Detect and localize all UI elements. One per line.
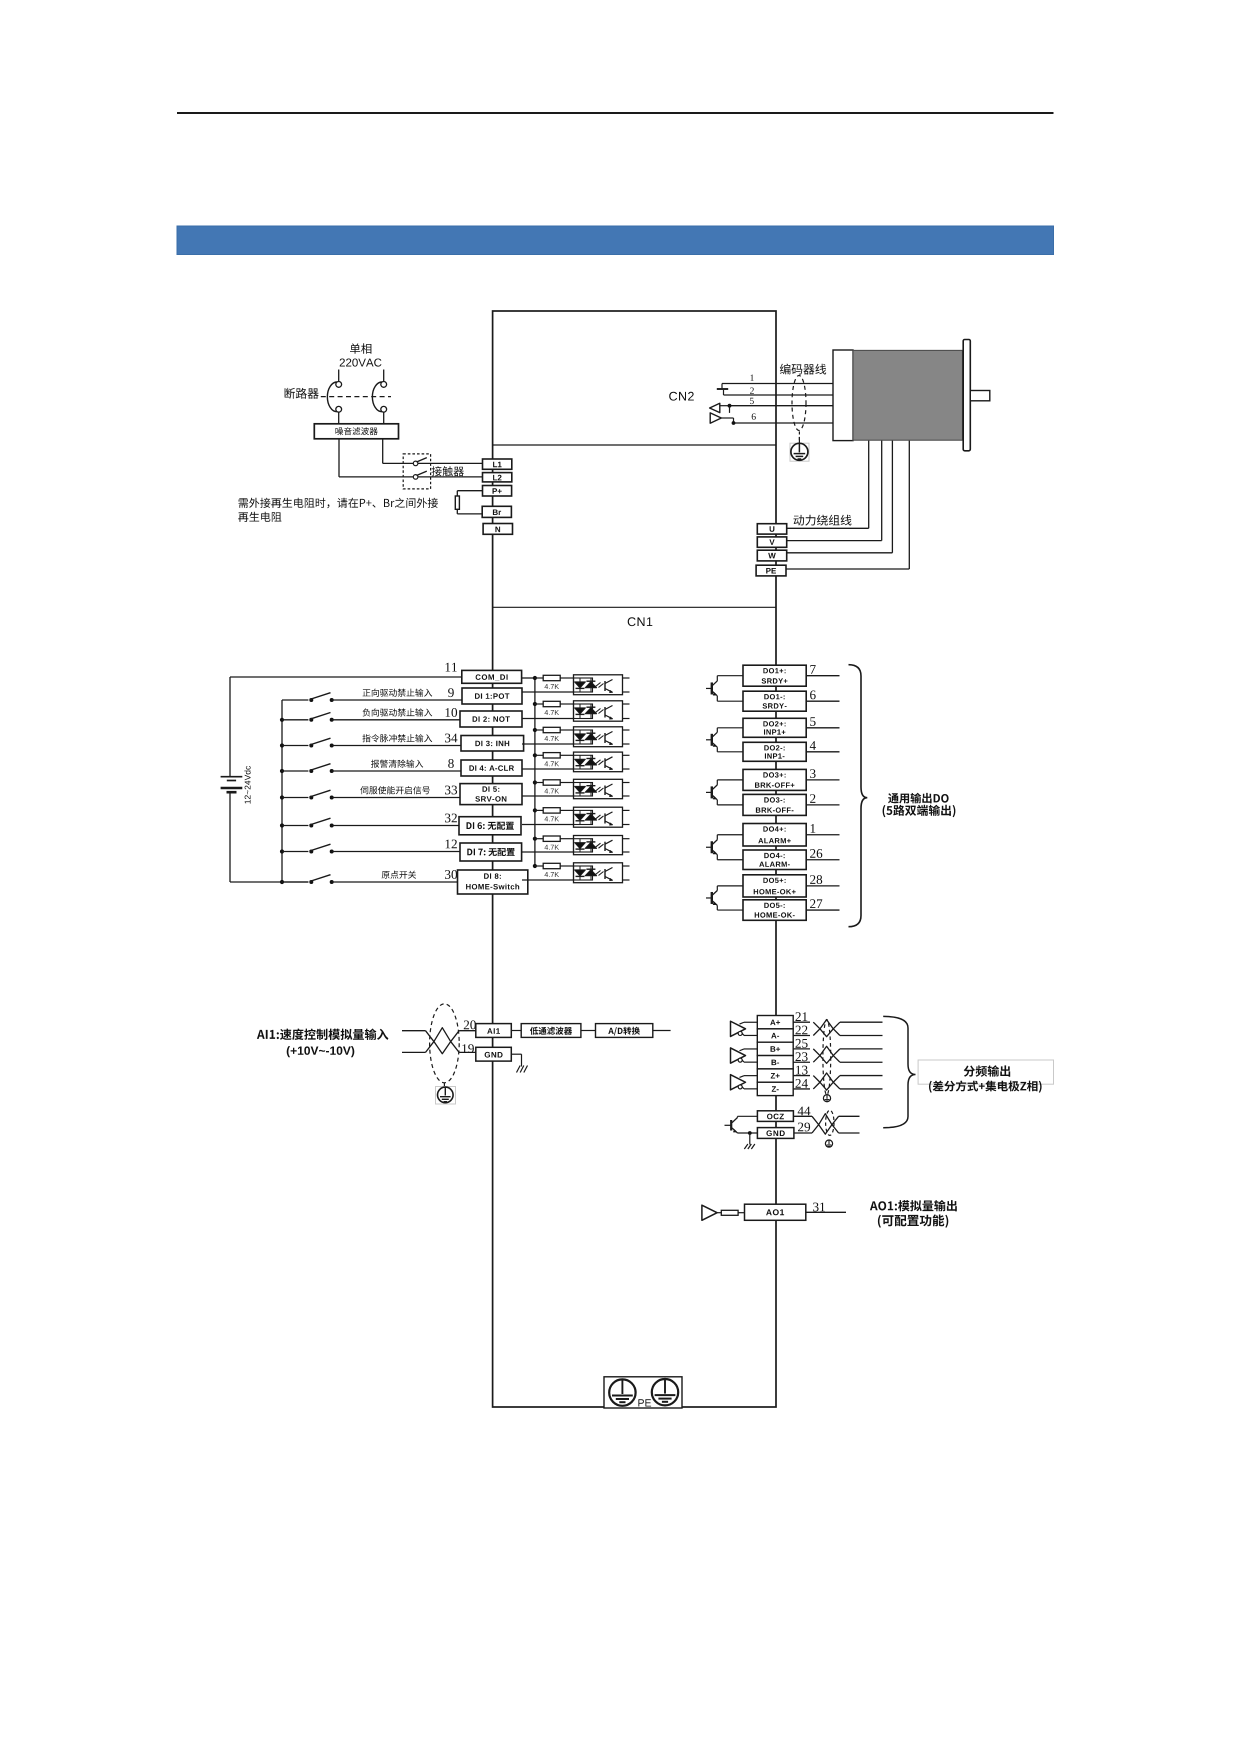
terminal Z- bbox=[757, 1082, 793, 1095]
pin 21 bbox=[796, 1012, 808, 1021]
junction bus row DI5 bbox=[280, 795, 284, 799]
earth symbol PE 1 bbox=[609, 1379, 635, 1405]
wire Z- after twist bbox=[840, 1088, 883, 1090]
optocoupler U8 bbox=[574, 863, 623, 883]
wire DO pin 7 bbox=[806, 675, 839, 677]
wire optocoupler U1 outputs bbox=[623, 677, 630, 679]
wire switch S3 to DI3 terminal bbox=[332, 745, 461, 747]
wire driver to pin6 bbox=[721, 417, 733, 419]
pin 25 bbox=[796, 1039, 808, 1048]
wire bus to resistor R4 bbox=[535, 754, 543, 756]
brace general DO outputs bbox=[849, 665, 868, 927]
wire B+ after twist bbox=[840, 1048, 883, 1050]
pin 11 bbox=[446, 663, 457, 672]
junction bus row DI2 bbox=[280, 718, 284, 722]
wire bus to resistor R7 bbox=[535, 838, 543, 840]
terminal DI2:NOT bbox=[460, 711, 522, 727]
wire pin 25 bbox=[793, 1048, 810, 1050]
terminal P+ bbox=[483, 486, 512, 497]
terminal AI1 bbox=[476, 1024, 512, 1038]
wire pin 13 bbox=[793, 1075, 810, 1077]
wire A/D converter output bbox=[653, 1030, 671, 1032]
wire bus to switch S5 bbox=[282, 797, 308, 799]
label contactor bbox=[432, 466, 464, 476]
wire AI1 input - bbox=[402, 1051, 426, 1053]
terminal V bbox=[757, 537, 786, 547]
pin 34 bbox=[445, 734, 457, 743]
junction bus row DI7 bbox=[280, 849, 284, 853]
wire pin 23 bbox=[793, 1061, 810, 1063]
resistor R2 4.7K bbox=[543, 701, 560, 706]
wire DO pin 4 bbox=[806, 751, 839, 753]
terminal A+ bbox=[757, 1016, 793, 1029]
wire optocoupler U6 outputs bbox=[623, 809, 630, 811]
wire Q2 collector to DO2+ bbox=[716, 728, 718, 733]
wire contact1 to L1 bbox=[418, 462, 483, 464]
A/D converter block bbox=[596, 1024, 653, 1038]
encoder wire pin 1 bbox=[722, 383, 833, 385]
terminal DO5+ HOME-OK+ bbox=[743, 875, 806, 897]
pin 26 bbox=[810, 849, 822, 858]
wire bus to resistor R3 bbox=[535, 729, 543, 731]
switch S6 bbox=[309, 824, 313, 828]
wire resistor R8 to optocoupler U8 bbox=[560, 865, 573, 867]
pin 27 bbox=[810, 899, 822, 908]
brace frequency-divided output bbox=[883, 1016, 915, 1127]
optocoupler U1 bbox=[574, 675, 623, 695]
battery 12~24Vdc bbox=[221, 776, 243, 778]
value label 4.7K bbox=[545, 761, 560, 766]
wire DI8 terminal to optocoupler U8 cathode bbox=[522, 879, 574, 881]
contactor KM contact 1 bbox=[413, 461, 418, 466]
resistor R1 4.7K bbox=[543, 675, 560, 680]
pin 10 bbox=[446, 708, 458, 717]
terminal N bbox=[483, 524, 512, 535]
shield earth symbol A/B/Z bbox=[823, 1095, 830, 1102]
pin 23 bbox=[796, 1052, 808, 1061]
pin 24 bbox=[796, 1079, 808, 1088]
noise filter box bbox=[314, 424, 398, 439]
value label 4.7K bbox=[545, 845, 560, 850]
wire GND after twist bbox=[839, 1132, 860, 1134]
PE terminal block bbox=[604, 1377, 682, 1408]
wire OCZ after twist bbox=[839, 1115, 860, 1117]
junction bus at resistor R8 bbox=[533, 864, 537, 868]
wire W phase bbox=[787, 552, 893, 554]
switch S5 bbox=[309, 796, 313, 800]
pin 33 bbox=[445, 786, 457, 795]
terminal W bbox=[757, 550, 786, 561]
wire resistor to AO1 terminal bbox=[738, 1212, 744, 1214]
series resistor AO1 bbox=[721, 1210, 738, 1215]
wire DI5 terminal to optocoupler U5 cathode bbox=[522, 795, 574, 797]
wire bus to switch S4 bbox=[282, 770, 308, 772]
servo motor body bbox=[853, 350, 963, 440]
wire AI1 to low-pass filter bbox=[511, 1030, 521, 1032]
wire resistor R6 to optocoupler U6 bbox=[560, 809, 573, 811]
value label 4.7K bbox=[545, 816, 560, 821]
buffer amplifier AO1 bbox=[702, 1205, 717, 1220]
wire optocoupler U5 outputs bbox=[623, 782, 630, 784]
wire DO pin 26 bbox=[806, 859, 839, 861]
pin 6 bbox=[810, 691, 816, 700]
pin 20 bbox=[464, 1020, 476, 1029]
transistor Q2 bbox=[706, 739, 711, 741]
terminal L1 bbox=[483, 459, 512, 469]
terminal COM_DI bbox=[462, 670, 522, 683]
encoder driver triangle bbox=[710, 413, 721, 423]
wire receiver to pin5 bbox=[720, 405, 730, 407]
wire DO pin 3 bbox=[806, 779, 839, 781]
resistor R3 4.7K bbox=[543, 727, 560, 732]
terminal DI1:POT bbox=[462, 688, 522, 704]
label DI1 function bbox=[363, 689, 433, 697]
wire bus to resistor R6 bbox=[535, 809, 543, 811]
wire AC N to breaker bbox=[383, 370, 385, 382]
pin 1 bbox=[811, 824, 816, 833]
wire supply positive rail bbox=[229, 677, 231, 776]
terminal B+ bbox=[757, 1042, 793, 1055]
terminal L2 bbox=[483, 473, 512, 482]
wire optocoupler U8 outputs bbox=[623, 865, 630, 867]
pin 4 bbox=[810, 741, 816, 750]
encoder wire pin 6 bbox=[734, 422, 834, 424]
optocoupler U3 bbox=[574, 727, 623, 747]
earth symbol PE 2 bbox=[652, 1379, 678, 1405]
wire DI3 terminal to optocoupler U3 cathode bbox=[522, 743, 574, 745]
optocoupler U6 bbox=[574, 807, 623, 827]
wire resistor R4 to optocoupler U4 bbox=[560, 754, 573, 756]
contactor KM dashed box bbox=[403, 454, 430, 489]
terminal Br bbox=[482, 506, 511, 517]
wire DO pin 27 bbox=[806, 909, 839, 911]
pin 3 bbox=[810, 769, 816, 778]
value label 4.7K bbox=[545, 736, 560, 741]
wires driver U11 to terminals bbox=[740, 1076, 745, 1078]
wire DI6 terminal to optocoupler U6 cathode bbox=[522, 824, 574, 826]
switch S2 bbox=[309, 718, 313, 722]
wire filter out left to contactor bottom contact bbox=[338, 439, 340, 477]
wire low-pass filter to A/D bbox=[581, 1030, 596, 1032]
wire contact2 to L2 bbox=[418, 476, 483, 478]
twisted pair OCZ/GND bbox=[812, 1116, 839, 1134]
circuit breaker QF pole 1 bbox=[336, 382, 342, 388]
label box frequency-divided output bbox=[918, 1060, 1053, 1084]
wire optocoupler U7 outputs bbox=[623, 838, 630, 840]
junction bus at resistor R2 bbox=[533, 702, 537, 706]
transistor Q4 bbox=[706, 846, 711, 848]
pin 31 bbox=[813, 1203, 825, 1212]
chassis ground symbol AI1 bbox=[517, 1066, 521, 1073]
junction bus at resistor R5 bbox=[533, 780, 537, 784]
wire resistor R5 to optocoupler U5 bbox=[560, 782, 573, 784]
label AO1 analog output bbox=[870, 1200, 957, 1211]
wire bus to switch S3 bbox=[282, 745, 308, 747]
wire optocoupler U4 outputs bbox=[623, 754, 630, 756]
wire AI1 input + bbox=[402, 1030, 426, 1032]
switch S1 bbox=[309, 698, 313, 702]
wire resistor R2 to optocoupler U2 bbox=[560, 703, 573, 705]
wire switch S1 to DI1 terminal bbox=[332, 699, 462, 701]
terminal DO3+ BRK-OFF+ bbox=[743, 769, 806, 790]
terminal DO1+ SRDY+ bbox=[743, 665, 806, 686]
transistor Q1 bbox=[706, 687, 711, 689]
differential driver U9 bbox=[731, 1021, 746, 1036]
wire shield to earth AI1 bbox=[443, 1083, 445, 1087]
servo motor shaft bbox=[970, 391, 990, 401]
wire DI7 terminal to optocoupler U7 cathode bbox=[522, 851, 574, 853]
wire pin 22 bbox=[793, 1035, 810, 1037]
cable shield ellipse OCZ bbox=[826, 1110, 834, 1135]
wire optocoupler U2 outputs bbox=[623, 703, 630, 705]
wire Q2 emitter to DO2- bbox=[716, 746, 717, 747]
transistor Q3 bbox=[706, 791, 711, 793]
wire V phase bbox=[787, 540, 882, 542]
wire twist to pin 19 bbox=[459, 1051, 476, 1053]
label CN1 bbox=[628, 617, 653, 626]
pin 28 bbox=[810, 875, 822, 884]
wire DO pin 6 bbox=[806, 700, 839, 702]
twisted pair AI1 bbox=[426, 1031, 460, 1054]
wire bus to switch S7 bbox=[282, 851, 308, 853]
divider line above CN1 section bbox=[493, 606, 776, 608]
wire switch S8 to DI8 terminal bbox=[332, 881, 458, 883]
wire twist to pin 20 bbox=[459, 1030, 476, 1032]
switch S8 bbox=[309, 880, 313, 884]
terminal DI5:SRV-ON bbox=[460, 784, 522, 805]
terminal B- bbox=[757, 1056, 793, 1069]
resistor R6 4.7K bbox=[543, 808, 560, 813]
DI common bus vertical bbox=[534, 678, 536, 866]
twisted pair B+/B- bbox=[813, 1049, 840, 1064]
wires driver U9 to terminals bbox=[740, 1022, 745, 1024]
wire switch S2 to DI2 terminal bbox=[332, 719, 460, 721]
value label 4.7K bbox=[545, 710, 560, 715]
wire A+ after twist bbox=[840, 1021, 883, 1023]
optocoupler U4 bbox=[574, 752, 623, 772]
wire shield to earth bbox=[798, 432, 800, 444]
wire breaker pole1 to noise filter bbox=[338, 412, 340, 424]
pin 1 bbox=[751, 375, 754, 381]
wire switch S4 to DI4 terminal bbox=[332, 770, 461, 772]
terminal GND (pulse) bbox=[757, 1128, 794, 1139]
pin 7 bbox=[810, 665, 815, 674]
terminal DO2- INP1- bbox=[743, 742, 806, 761]
wire Q6 emitter to GND bbox=[736, 1132, 737, 1133]
pin 8 bbox=[448, 759, 454, 768]
wire DI2 terminal to optocoupler U2 cathode bbox=[522, 718, 574, 720]
terminal DI8:HOME-Switch bbox=[458, 870, 528, 894]
pin 6 bbox=[752, 413, 756, 419]
wire bus to switch S2 bbox=[282, 719, 308, 721]
resistor R5 4.7K bbox=[543, 780, 560, 785]
wire bus to resistor R1 bbox=[535, 677, 543, 679]
junction bus at resistor R4 bbox=[533, 753, 537, 757]
terminal DI6 (unassigned) bbox=[459, 817, 521, 835]
encoder wire pin 2 bbox=[724, 394, 834, 396]
pin 2 bbox=[810, 794, 815, 803]
wire Q4 collector to DO4+ bbox=[716, 835, 718, 840]
optocoupler U2 bbox=[574, 701, 623, 721]
chassis ground symbol Q6 bbox=[744, 1144, 748, 1149]
wire DO pin 28 bbox=[806, 885, 839, 887]
external regen resistor RB bbox=[455, 496, 459, 509]
junction bus at resistor R1 bbox=[533, 676, 537, 680]
wire pin 24 bbox=[793, 1088, 810, 1090]
wire switch S5 to DI5 terminal bbox=[332, 797, 460, 799]
pin 22 bbox=[796, 1026, 808, 1035]
label AI1 analog input bbox=[257, 1029, 389, 1041]
value label 4.7K bbox=[545, 789, 560, 794]
wire amp to resistor bbox=[717, 1212, 721, 1214]
circuit breaker QF pole 2 bbox=[381, 382, 387, 388]
wire bus to switch S8 bbox=[282, 881, 308, 883]
wire bus to switch S6 bbox=[282, 825, 308, 827]
encoder wire pin 5 bbox=[730, 405, 834, 407]
wire U phase bbox=[787, 527, 869, 529]
encoder receiver triangle bbox=[710, 403, 720, 412]
terminal Z+ bbox=[757, 1069, 793, 1082]
terminal DI3:INH bbox=[461, 736, 524, 752]
wire AC L to breaker bbox=[338, 370, 340, 382]
switch common bus bbox=[281, 700, 283, 882]
value label 4.7K bbox=[545, 684, 560, 689]
wire switch S7 to DI7 terminal bbox=[332, 851, 460, 853]
wire A- after twist bbox=[840, 1035, 883, 1037]
wire filter out right to contactor top contact bbox=[382, 439, 384, 464]
optocoupler U7 bbox=[574, 836, 623, 855]
wire Q5 collector to DO5+ bbox=[716, 886, 718, 891]
cable shield ellipse A/B/Z bbox=[823, 1020, 831, 1095]
junction bus row DI4 bbox=[280, 769, 284, 773]
switch S3 bbox=[309, 744, 313, 748]
wire Q6 collector to OCZ bbox=[737, 1116, 739, 1117]
pin 44 bbox=[798, 1107, 811, 1116]
label general output DO bbox=[888, 793, 949, 804]
wire pin 29 bbox=[794, 1132, 812, 1134]
label DI8 function bbox=[382, 871, 417, 879]
terminal DO3- BRK-OFF- bbox=[743, 794, 806, 815]
label DI5 function bbox=[360, 786, 430, 794]
encoder cable shield ellipse bbox=[792, 376, 806, 431]
terminal GND (analog) bbox=[476, 1047, 512, 1061]
wire breaker pole2 to noise filter bbox=[383, 412, 385, 424]
wire GND to chassis ground bbox=[511, 1053, 521, 1055]
terminal DO4- ALARM- bbox=[743, 850, 806, 870]
label encoder cable bbox=[780, 364, 826, 375]
terminal DI7 (unassigned) bbox=[460, 843, 522, 861]
pin 19 bbox=[462, 1044, 474, 1053]
terminal AO1 bbox=[745, 1204, 806, 1220]
wire PE to motor bbox=[786, 568, 909, 570]
encoder shield earth (PE) symbol bbox=[790, 443, 809, 461]
servo drive enclosure bbox=[493, 311, 776, 1407]
terminal DO4+ ALARM+ bbox=[743, 824, 806, 847]
wire optocoupler U3 outputs bbox=[623, 729, 630, 731]
pin 5 bbox=[750, 398, 754, 404]
wire DO pin 5 bbox=[806, 727, 839, 729]
terminal OCZ bbox=[757, 1111, 793, 1122]
switch S7 bbox=[309, 850, 313, 854]
wire Z+ after twist bbox=[840, 1075, 883, 1077]
terminal DO1- SRDY- bbox=[743, 691, 806, 711]
wire COM_DI to external supply (far left) bbox=[230, 676, 462, 678]
label CN2 bbox=[669, 392, 694, 401]
terminal DO5- HOME-OK- bbox=[743, 900, 806, 921]
low-pass filter block bbox=[521, 1024, 581, 1038]
junction bus at resistor R3 bbox=[533, 728, 537, 732]
terminal PE bbox=[756, 565, 786, 576]
wire supply negative rail bbox=[229, 792, 231, 882]
servo motor encoder housing bbox=[833, 350, 853, 441]
contactor KM contact 2 bbox=[413, 475, 418, 480]
value label 4.7K bbox=[545, 872, 560, 877]
twisted pair Z+/Z- bbox=[813, 1076, 840, 1091]
pin 2 bbox=[750, 388, 754, 394]
label DI2 function bbox=[363, 708, 433, 716]
junction bus at resistor R6 bbox=[533, 808, 537, 812]
wire pin 21 bbox=[793, 1021, 810, 1023]
wire DI1 terminal to optocoupler U1 cathode bbox=[522, 691, 574, 693]
wire Q1 collector to DO1+ bbox=[716, 676, 718, 681]
wire resistor R7 to optocoupler U7 bbox=[560, 838, 573, 840]
junction Q6 emitter ground tap bbox=[748, 1131, 752, 1135]
transistor Q5 bbox=[706, 897, 711, 899]
junction bus row DI6 bbox=[280, 823, 284, 827]
twisted pair A+/A- bbox=[813, 1022, 840, 1037]
wire DI4 terminal to optocoupler U4 cathode bbox=[522, 768, 574, 770]
wire pin 31 bbox=[806, 1211, 846, 1213]
shield earth (PE) symbol AI1 bbox=[436, 1087, 456, 1105]
label breaker bbox=[285, 388, 319, 399]
wire regen resistor to Br bbox=[456, 509, 458, 514]
wire Q5 emitter to DO5- bbox=[716, 904, 717, 905]
wire DO pin 2 bbox=[806, 804, 839, 806]
blue section header bar bbox=[177, 226, 1054, 255]
wire bus to resistor R8 bbox=[535, 865, 543, 867]
switch S4 bbox=[309, 769, 313, 773]
wire Q1 emitter to DO1- bbox=[716, 695, 717, 696]
pin 30 bbox=[445, 870, 457, 879]
wires driver U10 to terminals bbox=[740, 1049, 745, 1051]
terminal A- bbox=[757, 1029, 793, 1042]
wire Q3 emitter to DO3- bbox=[716, 799, 717, 800]
resistor R4 4.7K bbox=[543, 753, 560, 758]
optocoupler U5 bbox=[574, 779, 623, 798]
pin 29 bbox=[798, 1123, 810, 1132]
label 12~24Vdc bbox=[244, 766, 250, 804]
terminal DO2+ INP1+ bbox=[743, 718, 806, 737]
wire resistor R3 to optocoupler U3 bbox=[560, 729, 573, 731]
junction bus row DI3 bbox=[280, 743, 284, 747]
shield earth symbol OCZ bbox=[825, 1140, 832, 1147]
terminal DI4:A-CLR bbox=[461, 760, 522, 776]
wire Q4 emitter to DO4- bbox=[716, 854, 717, 855]
label PE bbox=[638, 1399, 651, 1406]
power supply tap symbol between encoder pins 1 and 2 bbox=[721, 384, 723, 389]
divider line below CN2 section bbox=[493, 444, 776, 446]
pin 12 bbox=[446, 840, 457, 849]
wire Q3 collector to DO3+ bbox=[716, 780, 718, 785]
wire switch S6 to DI6 terminal bbox=[332, 825, 459, 827]
differential driver U10 bbox=[731, 1048, 746, 1063]
label motor power cable bbox=[794, 515, 852, 526]
note about external regen resistor bbox=[239, 498, 439, 509]
servo motor flange bbox=[963, 340, 970, 451]
wire resistor R1 to optocoupler U1 bbox=[560, 677, 573, 679]
wire P+ to external regen resistor bbox=[457, 490, 482, 492]
wire bus to resistor R2 bbox=[535, 703, 543, 705]
